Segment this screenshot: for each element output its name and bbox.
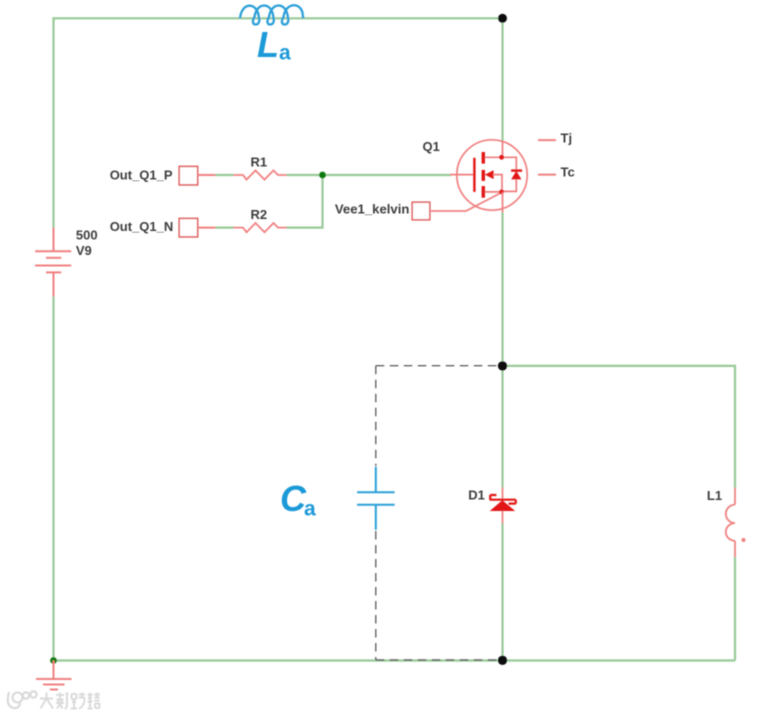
svg-text:L1: L1 [707, 488, 722, 503]
wire top horizontal [54, 17, 503, 19]
node dot bottom [498, 656, 507, 665]
wire main vertical: D1 to bottom node [501, 523, 503, 661]
terminal Tj [538, 139, 556, 141]
Q1 drain link [485, 157, 516, 170]
svg-text:Q1: Q1 [423, 139, 440, 154]
Q1 body circle [457, 140, 527, 210]
svg-text:Tc: Tc [561, 164, 575, 179]
Q1 source lead [502, 192, 504, 213]
wire gate row (R1 out to Q1 gate) [287, 174, 452, 176]
L1 polarity dot [742, 538, 746, 542]
svg-text:R2: R2 [251, 207, 268, 222]
Q1 gate lead inside [450, 174, 473, 176]
D1 upper lead [502, 488, 504, 500]
ground [36, 661, 72, 690]
inductor La [240, 5, 303, 24]
Q1 bottom channel link [485, 191, 502, 193]
Q1 drain dot [499, 155, 504, 160]
svg-text:Out_Q1_P: Out_Q1_P [110, 168, 173, 183]
wire main vertical: cap node to D1 [501, 366, 503, 488]
Q1 drain lead [502, 141, 504, 158]
Q1 channel bars [482, 152, 485, 164]
L1 lower lead [734, 541, 736, 557]
watermark logo [8, 691, 37, 708]
svg-text:V9: V9 [76, 243, 92, 258]
wire main vertical: Q1 source to cap node [501, 212, 503, 366]
node dot capacitor top [498, 361, 507, 370]
wire R1 port to resistor [216, 174, 234, 176]
Q1 diode lower link [502, 179, 516, 191]
svg-text:L: L [257, 24, 279, 65]
wire mid horizontal (node to right) [503, 365, 736, 367]
Q1 source dot [499, 190, 504, 195]
watermark text (CJK approximation) [40, 693, 100, 709]
svg-text:D1: D1 [468, 488, 485, 503]
L1 coil arcs [726, 505, 735, 541]
Q1 body diode triangle [511, 171, 521, 180]
svg-text:a: a [304, 498, 316, 521]
node gate junction dot [319, 172, 326, 179]
Q1 source link [493, 175, 502, 192]
L1 upper lead [734, 488, 736, 505]
D1 lower lead [502, 511, 504, 523]
wire R2 out to corner up to gate node [287, 174, 323, 228]
wire right vertical upper [734, 365, 736, 488]
ground junction dot [50, 657, 57, 664]
node dot top right [498, 14, 507, 23]
D1 cathode bar with hooks [490, 495, 516, 504]
svg-text:C: C [280, 478, 307, 519]
Q1 source arrow [485, 170, 494, 179]
svg-text:Out_Q1_N: Out_Q1_N [110, 219, 174, 234]
terminal Tc [538, 174, 556, 176]
wire kelvin to Q1 source [430, 193, 502, 212]
svg-text:Tj: Tj [561, 130, 573, 145]
wire R2 port to resistor [216, 227, 234, 229]
wire left vertical lower [52, 296, 54, 660]
D1 triangle [490, 500, 515, 511]
wire main vertical: top node to Q1 [501, 18, 503, 141]
battery V9 [35, 228, 71, 297]
svg-text:500: 500 [76, 228, 98, 243]
svg-text:a: a [279, 42, 291, 65]
Q1 gate bar [473, 158, 475, 192]
svg-text:R1: R1 [251, 155, 268, 170]
capacitor Ca [357, 467, 395, 530]
wire right vertical lower [734, 557, 736, 661]
wire left vertical upper [52, 17, 54, 227]
Q1 body diode bar [511, 169, 522, 171]
dashed subcircuit box [376, 366, 498, 660]
wire bottom horizontal [54, 659, 736, 661]
svg-text:Vee1_kelvin: Vee1_kelvin [335, 201, 410, 216]
